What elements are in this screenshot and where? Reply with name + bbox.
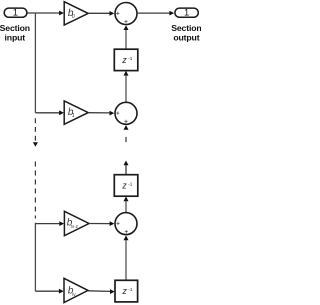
arrowhead into gain bN (59, 289, 64, 294)
sum S3 circle (115, 213, 137, 235)
dash: middle rail continuation (125, 137, 127, 142)
svg-text:output: output (173, 32, 199, 42)
svg-text:z: z (121, 181, 127, 191)
svg-text:0: 0 (72, 14, 75, 20)
wire: gain b1 to sum S2 (88, 112, 110, 114)
svg-text:Section: Section (171, 23, 201, 33)
wire: branch to gain b1 (35, 112, 59, 114)
svg-text:input: input (5, 32, 26, 42)
svg-text:-1: -1 (128, 287, 133, 292)
sum S2 circle (115, 102, 137, 124)
wire: sum S3 up to delay Z2 (125, 201, 127, 212)
wire: gain bN-1 to sum S3 (89, 223, 110, 225)
arrowhead into gain bN-1 (59, 221, 64, 226)
arrowhead into S3 bottom (124, 235, 129, 240)
svg-text:N: N (72, 292, 76, 298)
arrowhead into outport (169, 11, 174, 16)
wire: left rail dashed upper (34, 118, 36, 141)
arrowhead up from delay Z2 (continuation) (124, 161, 129, 166)
gain bN-1 triangle (64, 211, 89, 235)
svg-text:-1: -1 (128, 182, 133, 187)
inport block 1 (Section input) (4, 8, 27, 17)
svg-text:z: z (121, 55, 127, 65)
plus signs S1 (116, 12, 127, 23)
wire: delay Z3 up to sum S3 (125, 240, 127, 280)
svg-text:-1: -1 (128, 56, 133, 61)
arrowhead into Z1 bottom (124, 71, 129, 76)
arrowhead into sum S2 left (110, 111, 115, 116)
wire: branch to gain bN (35, 290, 59, 292)
gain b0 triangle (64, 2, 88, 25)
outport block 1 (Section output) (175, 8, 198, 17)
arrowhead into Z3 left (110, 289, 115, 294)
svg-text:z: z (121, 286, 127, 296)
wire: left rail dashed lower (34, 162, 36, 219)
plus signs S3 (116, 222, 128, 233)
wire: left rail solid top segment (34, 13, 36, 113)
arrowhead into S2 bottom (from continuation) (124, 125, 129, 130)
arrowhead into Z2 bottom (124, 196, 129, 201)
unit delay Z2 box (114, 175, 138, 197)
wire: left rail solid bottom segment (34, 223, 36, 292)
arrowhead into sum S1 left (110, 11, 115, 16)
plus signs S2 (116, 112, 127, 123)
svg-text:1: 1 (13, 7, 18, 18)
gain b1 triangle (64, 101, 88, 124)
arrowhead into sum S3 left (110, 221, 115, 226)
arrowhead: left rail continuation (down) (33, 142, 38, 146)
wire: delay Z1 up to sum S1 (125, 30, 127, 49)
arrowhead into S1 bottom (124, 25, 129, 30)
wire: delay Z2 top stub (125, 165, 127, 175)
svg-text:Section: Section (0, 23, 30, 33)
arrowhead into gain b1 (59, 110, 64, 115)
unit delay Z1 box (114, 49, 138, 70)
wire: sum S1 to output port (138, 12, 170, 14)
svg-text:1: 1 (72, 113, 75, 119)
unit delay Z3 box (115, 280, 138, 302)
sum S1 circle (115, 3, 137, 25)
wire: gain bN to delay Z3 (88, 290, 110, 293)
svg-text:N-1: N-1 (71, 224, 79, 229)
wire: branch to gain bN-1 (35, 223, 60, 225)
wire: gain b0 to sum S1 (88, 12, 110, 14)
wire: input port to gain b0 (27, 12, 59, 14)
arrowhead into gain b0 (59, 11, 64, 16)
gain bN triangle (64, 278, 88, 302)
svg-text:1: 1 (184, 7, 189, 18)
wire: sum S2 up to delay Z1 (125, 75, 127, 102)
